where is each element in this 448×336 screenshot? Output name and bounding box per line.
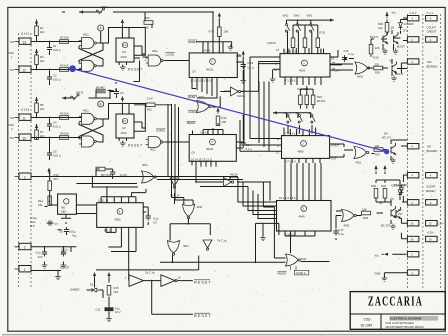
svg-text:(BOARD): (BOARD) [426,65,437,69]
svg-text:C H 2: C H 2 [21,108,29,112]
svg-text:D1 1N4003: D1 1N4003 [394,183,408,187]
svg-text:R28: R28 [363,216,368,220]
svg-text:LOAD1: LOAD1 [166,53,175,57]
svg-text:2k2: 2k2 [40,59,45,63]
svg-text:C17: C17 [339,228,344,232]
svg-text:NO: NO [10,116,14,120]
svg-text:C5: C5 [53,150,57,154]
svg-text:4013: 4013 [121,131,127,135]
svg-text:D1: D1 [90,283,94,287]
svg-text:22K: 22K [375,144,380,148]
svg-text:R5: R5 [40,103,44,107]
svg-text:1: 1 [24,268,26,272]
svg-text:R3: R3 [40,55,44,59]
svg-text:4060: 4060 [298,150,304,154]
svg-text:3 4 5 6: 3 4 5 6 [200,131,209,135]
svg-text:10 11 16: 10 11 16 [98,199,109,203]
svg-text:B: B [100,102,102,106]
svg-text:RESET: RESET [278,272,287,276]
svg-text:12: 12 [274,68,277,72]
svg-text:C11: C11 [96,308,101,312]
svg-text:(BOARD): (BOARD) [426,149,437,153]
svg-text:C3: C3 [120,91,124,95]
svg-text:10 14 15 13 12 11: 10 14 15 13 12 11 [191,157,213,161]
svg-text:C H 2: C H 2 [410,11,417,15]
svg-text:GND: GND [375,272,381,276]
svg-text:COin: COin [8,51,15,55]
svg-text:4011: 4011 [301,257,307,261]
svg-text:0,01 µ: 0,01 µ [53,78,61,82]
svg-text:R E S E T: R E S E T [128,144,142,148]
svg-text:3R124: 3R124 [317,99,325,103]
svg-text:5: 5 [211,60,213,64]
svg-text:4 OUT: 4 OUT [331,144,339,148]
svg-text:LOAD1: LOAD1 [188,110,197,114]
svg-text:SW 1: SW 1 [101,5,108,9]
svg-text:COin: COin [8,123,15,127]
svg-text:0,1 µ: 0,1 µ [247,66,253,70]
svg-text:RESET: RESET [188,95,197,99]
svg-text:15 1 2 3 4 5 6 7: 15 1 2 3 4 5 6 7 [279,196,298,200]
svg-text:4 OUT: 4 OUT [332,69,340,73]
svg-text:0,1µ: 0,1µ [339,232,345,236]
svg-text:ZACCARIA: ZACCARIA [368,295,423,309]
svg-text:8 10 12: 8 10 12 [285,233,294,237]
svg-text:NC: NC [10,68,14,72]
svg-text:R E S E T: R E S E T [128,68,142,72]
svg-text:1: 1 [303,61,305,65]
svg-text:CREDIT: CREDIT [427,30,437,34]
svg-text:LOAD2: LOAD2 [156,129,165,133]
svg-text:22K: 22K [375,63,380,67]
svg-text:R E S E T: R E S E T [194,314,211,318]
svg-text:40161: 40161 [206,68,214,72]
svg-text:R29: R29 [371,184,376,188]
svg-text:R1: R1 [40,26,44,30]
svg-text:CK: CK [192,70,196,74]
svg-text:6K7: 6K7 [54,177,59,181]
svg-text:INC: INC [427,60,432,64]
svg-text:R11: R11 [147,107,152,111]
svg-text:0,01µ: 0,01µ [69,230,76,234]
svg-text:R10: R10 [222,116,227,120]
svg-text:LOAD 2: LOAD 2 [296,271,306,275]
svg-text:13: 13 [123,119,126,123]
svg-text:13: 13 [23,40,27,44]
svg-text:100 µ: 100 µ [61,248,68,252]
svg-text:4 OUT: 4 OUT [332,63,340,67]
svg-text:1B 1345: 1B 1345 [360,323,372,327]
svg-text:555: 555 [61,210,66,214]
svg-text:13: 13 [123,43,126,47]
svg-text:NC: NC [10,136,14,140]
svg-text:Q3: Q3 [390,26,394,30]
svg-text:4011: 4011 [142,163,148,167]
svg-text:0,01 µ: 0,01 µ [53,154,61,158]
svg-text:242: 242 [378,26,383,30]
svg-text:A: A [100,26,103,30]
svg-text:R E S E T: R E S E T [194,281,211,285]
svg-text:R 9: R 9 [209,30,214,34]
svg-text:ELECTRICAL DIAGRAM: ELECTRICAL DIAGRAM [390,317,421,321]
svg-text:Sw: Sw [308,111,312,115]
svg-text:Q1: Q1 [389,59,393,63]
svg-text:2k2: 2k2 [40,30,45,34]
svg-text:1: 1 [125,276,127,280]
svg-text:10K: 10K [145,16,150,20]
svg-text:R5: R5 [145,26,149,30]
svg-text:R21 R22: R21 R22 [297,87,308,91]
svg-text:CK: CK [191,151,195,155]
svg-text:R36: R36 [378,22,383,26]
svg-text:3: 3 [303,207,305,211]
svg-text:E R: E R [38,255,43,259]
svg-text:Sw: Sw [284,111,288,115]
svg-text:0,01 µ: 0,01 µ [53,125,61,129]
svg-text:11: 11 [23,116,27,120]
svg-text:R1a: R1a [38,199,43,203]
svg-text:Q6: Q6 [390,197,394,201]
svg-text:R6 447: R6 447 [96,86,105,90]
svg-text:12: 12 [178,276,181,280]
svg-text:22K: 22K [362,208,367,212]
svg-text:0,1µ: 0,1µ [153,217,159,221]
svg-text:R23: R23 [317,95,322,99]
svg-text:10K: 10K [64,112,69,116]
svg-text:C8: C8 [59,230,63,234]
svg-text:4011: 4011 [83,33,89,37]
svg-text:R 20: R 20 [320,31,326,35]
svg-text:R24: R24 [375,71,380,75]
svg-text:0,1 µ: 0,1 µ [246,147,252,151]
svg-text:RESET: RESET [187,121,196,125]
svg-text:4011: 4011 [150,148,156,152]
svg-text:C 13: C 13 [247,61,253,65]
svg-text:FOR COIN SWITCHES: FOR COIN SWITCHES [386,321,414,325]
svg-text:SW1: SW1 [307,14,313,18]
svg-text:1/2: 1/2 [122,126,126,130]
svg-text:3 4 5 6: 3 4 5 6 [202,48,211,52]
svg-text:10K: 10K [224,30,229,34]
svg-text:R 25: R 25 [373,56,379,60]
svg-text:10K: 10K [64,132,69,136]
svg-text:15: 15 [411,222,414,226]
svg-text:7a C 1a: 7a C 1a [217,239,227,243]
svg-text:4001: 4001 [357,75,363,79]
svg-text:BC171: BC171 [395,72,404,76]
svg-text:10µ: 10µ [115,307,120,311]
svg-text:10K: 10K [64,64,69,68]
svg-text:4011: 4011 [152,49,158,53]
svg-text:1 0 K: 1 0 K [147,97,153,101]
svg-text:C2: C2 [53,74,57,78]
svg-text:6,3V~: 6,3V~ [437,222,445,226]
svg-text:BC171: BC171 [370,35,379,39]
svg-text:Sw: Sw [295,111,299,115]
svg-text:E1: E1 [53,44,57,48]
svg-text:16: 16 [411,238,414,242]
svg-text:C H 1: C H 1 [21,32,29,36]
svg-text:4013: 4013 [121,55,127,59]
svg-text:Tant.: Tant. [30,220,36,224]
svg-text:8: 8 [119,210,121,214]
svg-text:BC 337: BC 337 [381,224,390,228]
svg-text:BC 171: BC 171 [382,136,391,140]
svg-text:6,3V~: 6,3V~ [428,231,436,235]
svg-text:22K: 22K [375,46,380,50]
svg-text:10: 10 [331,57,334,61]
svg-text:4011: 4011 [183,244,189,248]
svg-text:3: 3 [24,175,26,179]
svg-text:1N4003: 1N4003 [70,288,80,292]
svg-text:MONEY: MONEY [426,189,436,193]
svg-text:OUT: OUT [331,157,337,161]
svg-text:R15: R15 [114,286,119,290]
svg-text:10: 10 [23,136,27,140]
svg-text:Vcc: Vcc [392,11,397,15]
svg-text:9 7 6 5 4: 9 7 6 5 4 [285,160,296,164]
svg-text:7 4 5 6 13: 7 4 5 6 13 [285,132,297,136]
svg-text:Q5: Q5 [379,201,383,205]
svg-text:8 9 1a: 8 9 1a [104,229,112,233]
svg-text:337: 337 [398,212,403,216]
svg-text:7 1 2 6 5 3: 7 1 2 6 5 3 [285,79,298,83]
svg-text:4093: 4093 [299,69,305,73]
svg-text:Q4: Q4 [384,132,388,136]
svg-text:16 V: 16 V [61,252,67,256]
svg-text:C14: C14 [246,143,251,147]
svg-text:R7: R7 [40,130,44,134]
svg-text:1: 1 [11,55,13,59]
svg-text:C n 1: C n 1 [427,11,434,15]
svg-text:COUNT: COUNT [426,185,436,189]
svg-text:Vcc: Vcc [375,254,380,258]
svg-text:COUNT: COUNT [427,26,437,30]
svg-text:0,10µ: 0,10µ [30,216,37,220]
svg-text:0,1µ: 0,1µ [36,251,42,255]
svg-text:4020: 4020 [115,218,121,222]
svg-text:2K2: 2K2 [114,290,119,294]
svg-text:15: 15 [429,222,432,226]
svg-text:BC: BC [398,208,402,212]
svg-text:R30: R30 [381,184,386,188]
svg-text:4001: 4001 [344,224,350,228]
svg-text:1N4003: 1N4003 [404,22,414,26]
svg-text:74C14: 74C14 [230,173,238,177]
svg-text:SW3: SW3 [294,14,300,18]
svg-text:15: 15 [237,53,240,57]
svg-text:BC337: BC337 [397,45,406,49]
svg-text:G N D: G N D [60,266,70,270]
svg-text:D 3: D 3 [403,29,408,33]
svg-text:74 C 14: 74 C 14 [170,194,180,198]
svg-text:4011: 4011 [83,109,89,113]
svg-text:4049: 4049 [299,215,305,219]
svg-text:15k: 15k [38,203,43,207]
svg-text:C7: C7 [55,222,59,226]
svg-text:RESET: RESET [188,40,197,44]
svg-text:COD: COD [364,317,372,321]
svg-text:10 14 15 13 12 11: 10 14 15 13 12 11 [191,79,213,83]
svg-text:10K: 10K [64,36,69,40]
svg-text:40161: 40161 [206,147,214,151]
svg-text:C9: C9 [153,221,157,225]
svg-text:2: 2 [24,246,26,250]
svg-text:7aC1a: 7aC1a [237,94,245,98]
svg-text:SW2: SW2 [283,14,289,18]
svg-text:16: 16 [429,238,432,242]
svg-text:4011: 4011 [356,161,362,165]
svg-text:7a C 1a: 7a C 1a [145,270,155,274]
svg-text:NO: NO [10,40,14,44]
svg-text:0,1 µ: 0,1 µ [348,52,354,56]
svg-text:3 R124: 3 R124 [267,41,276,45]
svg-text:16 V: 16 V [115,310,121,314]
svg-text:SW B: SW B [76,91,83,95]
svg-text:N.P: N.P [30,224,35,228]
svg-text:14: 14 [276,48,279,52]
svg-text:1n C6: 1n C6 [119,173,127,177]
svg-text:R13: R13 [54,173,59,177]
svg-text:12: 12 [276,151,279,155]
svg-text:ADJUSTMENT BOARD 1B11a5: ADJUSTMENT BOARD 1B11a5 [386,325,425,329]
svg-text:10K: 10K [222,120,227,124]
svg-text:12: 12 [23,68,27,72]
svg-text:7 1 2 6 5 3: 7 1 2 6 5 3 [283,50,296,54]
svg-text:NE: NE [61,206,65,210]
svg-text:Vcc: Vcc [72,234,77,238]
svg-text:4011: 4011 [199,95,205,99]
svg-text:R27: R27 [375,153,380,157]
svg-text:0,01 µ: 0,01 µ [53,48,61,52]
svg-text:C4: C4 [53,121,57,125]
svg-text:2: 2 [302,142,304,146]
svg-text:2k2: 2k2 [40,107,45,111]
svg-text:6: 6 [211,140,213,144]
svg-text:2: 2 [11,127,13,131]
svg-text:4011: 4011 [197,205,203,209]
svg-text:NO: NO [427,145,431,149]
svg-text:2k3: 2k3 [40,134,45,138]
